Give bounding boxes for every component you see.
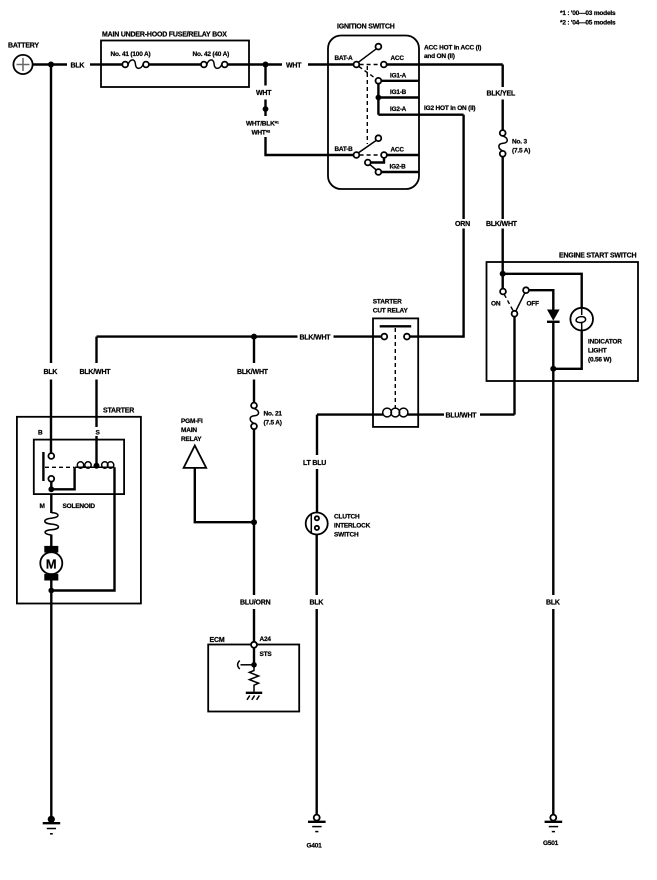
dashed linkage BAT-A to ACC — [360, 64, 381, 66]
svg-text:IG1-A: IG1-A — [390, 72, 407, 79]
indicator light L — [570, 308, 622, 364]
wire ACC output to BLK/YEL vertical — [387, 45, 503, 65]
ignition switch terminal ACC (upper) — [381, 55, 404, 67]
relay coil — [317, 408, 444, 417]
svg-text:IGNITION SWITCH: IGNITION SWITCH — [337, 24, 395, 31]
node splice dot on WHT branch — [263, 106, 269, 112]
fuse No.42 (40 A) — [193, 51, 230, 68]
node junction motor bottom — [48, 588, 54, 594]
svg-text:MAIN: MAIN — [181, 427, 197, 434]
wire M terminal to junction — [50, 482, 52, 490]
main under-hood fuse/relay box — [101, 32, 249, 88]
wire BLK/WHT horizontal starter to relay — [97, 334, 382, 341]
fuse No.21 (7.5 A) — [250, 403, 282, 430]
svg-text:(0.56 W): (0.56 W) — [588, 357, 611, 364]
wire BLK/YEL vertical — [487, 65, 516, 131]
svg-text:WHT: WHT — [286, 62, 302, 69]
node junction IG1-B — [376, 95, 382, 101]
svg-text:B: B — [38, 430, 43, 437]
switch blade common contact — [512, 311, 518, 317]
node junction at battery — [48, 62, 54, 68]
label WHT/BLK*1 WHT*2 — [246, 120, 279, 136]
node junction WHT branch — [263, 62, 269, 68]
ignition switch terminal IG2-A wire exits right — [378, 106, 463, 115]
svg-text:PGM-FI: PGM-FI — [181, 418, 203, 425]
svg-text:G401: G401 — [307, 843, 323, 850]
wire BLU/ORN down to ECM — [240, 522, 271, 642]
motor field coil — [45, 513, 59, 535]
motor M — [40, 535, 62, 591]
node junction BLK/WHT tap — [251, 334, 257, 340]
ignition switch terminal IG2-B — [376, 163, 420, 175]
relay contact bar — [380, 325, 412, 327]
svg-text:LT BLU: LT BLU — [303, 460, 326, 467]
wire ORN vertical IG2 down to relay — [455, 115, 470, 338]
wire A24 into ECM — [253, 648, 255, 665]
svg-text:WHT: WHT — [256, 90, 272, 97]
wire OFF to diode — [529, 290, 553, 309]
svg-text:*1 : '00—03 models: *1 : '00—03 models — [560, 10, 616, 17]
relay contact terminals — [381, 334, 409, 340]
svg-text:SOLENOID: SOLENOID — [63, 503, 96, 510]
wire BLK down to G501 — [546, 369, 560, 815]
svg-text:A24: A24 — [260, 636, 272, 643]
wire between fuses — [149, 63, 201, 65]
wire fuse to PGM-FI junction — [253, 429, 255, 522]
ignition switch terminal BAT-A — [335, 55, 360, 67]
blade common to OFF solid — [516, 293, 525, 311]
wire lamp bottom to junction — [553, 330, 581, 369]
dashed linkage BAT-A to IG1-A — [359, 67, 377, 80]
wire horizontal to BAT-B — [266, 154, 354, 156]
ignition switch terminal IG1-A — [376, 72, 420, 83]
wire fuse42 to junction and WHT label to ignition BAT-A — [228, 62, 354, 69]
ground G501 — [543, 815, 562, 847]
ignition switch box — [328, 24, 419, 190]
svg-text:LIGHT: LIGHT — [588, 348, 607, 355]
diode D — [547, 310, 560, 322]
svg-text:SWITCH: SWITCH — [334, 532, 359, 539]
wire IG1-A down to IG2-A — [377, 84, 379, 115]
terminal A24 STS — [251, 636, 272, 658]
solenoid box — [34, 427, 124, 510]
solenoid pull-in coil — [75, 462, 115, 468]
chassis ground battery side — [43, 816, 61, 834]
engine start switch OFF contact — [523, 287, 539, 307]
svg-text:BATTERY: BATTERY — [8, 43, 39, 50]
fuse No.3 (7.5 A) — [499, 130, 530, 157]
fuse No.41 (100 A) — [102, 51, 150, 68]
ground inside ECM — [246, 693, 262, 700]
wire starter to chassis ground — [50, 591, 52, 819]
dashed linkage vertical — [366, 66, 368, 144]
svg-text:BLU/ORN: BLU/ORN — [240, 600, 271, 607]
dashed linkage BAT-B to ACC — [360, 154, 381, 156]
switch arm BAT-A — [359, 44, 382, 63]
wire BLK/WHT vertical starter S branch — [80, 337, 112, 463]
dashed relay linkage — [394, 328, 396, 409]
svg-text:IG2-B: IG2-B — [390, 163, 407, 170]
svg-text:*2 : '04—05 models: *2 : '04—05 models — [560, 20, 616, 27]
wire M down to motor coil — [50, 494, 52, 513]
wire BLU/WHT to engine start switch — [446, 412, 515, 419]
wire diode to junction — [552, 323, 554, 369]
svg-text:M: M — [40, 503, 45, 510]
note *1 *2 models — [560, 10, 616, 27]
svg-text:BLU/WHT: BLU/WHT — [446, 412, 478, 419]
engine start switch box — [487, 252, 639, 381]
node junction below diode — [550, 366, 556, 372]
node junction S terminal — [94, 463, 100, 469]
svg-text:BLK/WHT: BLK/WHT — [237, 369, 269, 376]
svg-text:ACC HOT in ACC (I): ACC HOT in ACC (I) — [424, 45, 481, 52]
svg-text:M: M — [46, 556, 57, 571]
svg-text:BLK: BLK — [71, 62, 85, 69]
ignition switch terminal IG1-B — [378, 89, 419, 97]
ignition run contact circle — [365, 160, 371, 166]
node junction PGM-FI tap — [251, 519, 257, 525]
wire battery to fuse box with BLK label — [33, 62, 102, 69]
switch arm BAT-B — [359, 135, 382, 152]
ground G401 — [307, 815, 326, 850]
svg-text:No. 42 (40 A): No. 42 (40 A) — [193, 51, 230, 58]
svg-text:BLK/YEL: BLK/YEL — [487, 91, 516, 98]
svg-text:BAT-B: BAT-B — [335, 146, 354, 153]
node junction inside ECM — [251, 662, 257, 668]
clutch interlock switch — [306, 513, 371, 539]
svg-text:G501: G501 — [543, 840, 559, 847]
svg-text:BLK: BLK — [310, 600, 324, 607]
battery BT — [8, 43, 39, 75]
svg-text:STS: STS — [260, 651, 273, 658]
svg-text:ACC: ACC — [391, 147, 405, 154]
svg-text:No. 3: No. 3 — [512, 139, 527, 146]
ignition switch terminal BAT-B — [335, 146, 360, 158]
svg-text:No. 21: No. 21 — [264, 411, 283, 418]
wire coil down right side — [51, 467, 114, 590]
svg-text:BAT-A: BAT-A — [335, 55, 354, 62]
svg-text:IG1-B: IG1-B — [390, 89, 407, 96]
svg-text:STARTER: STARTER — [103, 407, 134, 414]
wire junction to lamp branch — [503, 274, 582, 308]
dashed plunger linkage — [45, 466, 74, 468]
svg-text:MAIN UNDER-HOOD FUSE/RELAY BOX: MAIN UNDER-HOOD FUSE/RELAY BOX — [102, 32, 227, 39]
starter cut relay box — [373, 299, 418, 427]
svg-text:CLUTCH: CLUTCH — [334, 514, 360, 521]
solenoid B terminal — [48, 453, 54, 459]
wire BLK/WHT vertical to engine start switch — [486, 157, 518, 291]
wire BLK down to G401 — [310, 535, 324, 815]
engine start switch ON contact — [491, 289, 506, 308]
ECM box — [208, 637, 299, 712]
svg-text:BLK/WHT: BLK/WHT — [80, 369, 112, 376]
svg-text:and ON (II): and ON (II) — [424, 53, 455, 60]
svg-text:STARTER: STARTER — [373, 299, 402, 306]
wire ACC lower hook to run contact — [371, 158, 384, 163]
svg-text:IG2-A: IG2-A — [390, 106, 407, 113]
wire BLK/WHT vertical center branch — [237, 337, 269, 403]
blade run contact to IG2-B — [370, 165, 376, 170]
svg-text:No. 41 (100 A): No. 41 (100 A) — [111, 51, 151, 58]
svg-text:INTERLOCK: INTERLOCK — [334, 523, 371, 530]
node junction solenoid — [48, 486, 54, 492]
svg-text:ACC: ACC — [391, 55, 405, 62]
svg-text:BLK/WHT: BLK/WHT — [300, 334, 332, 341]
svg-text:ENGINE START SWITCH: ENGINE START SWITCH — [559, 252, 636, 259]
solenoid M terminal — [48, 476, 54, 482]
PGM-FI main relay arrow — [181, 418, 254, 522]
svg-text:(7.5 A): (7.5 A) — [512, 148, 530, 155]
svg-text:IG2 HOT in ON (II): IG2 HOT in ON (II) — [424, 105, 475, 112]
svg-text:WHT/BLK*¹: WHT/BLK*¹ — [246, 120, 279, 127]
svg-text:ECM: ECM — [210, 637, 225, 644]
svg-text:BLK/WHT: BLK/WHT — [486, 221, 518, 228]
svg-text:(7.5 A): (7.5 A) — [264, 420, 282, 427]
svg-text:BLK: BLK — [546, 600, 560, 607]
wire LT BLU vertical to clutch interlock switch — [303, 415, 326, 513]
svg-text:INDICATOR: INDICATOR — [588, 339, 622, 346]
svg-text:BLK: BLK — [44, 369, 58, 376]
svg-text:ORN: ORN — [455, 221, 470, 228]
solenoid contact plate — [42, 452, 44, 481]
wire relay right contact to ORN — [410, 335, 464, 337]
wire junction up to coil — [51, 467, 74, 489]
svg-text:RELAY: RELAY — [181, 436, 202, 443]
svg-text:ON: ON — [491, 301, 501, 308]
wire WHT vertical branch down — [256, 65, 272, 157]
dashed blade ON to common — [504, 294, 513, 311]
wire stub to other circuit — [238, 661, 254, 669]
starter box — [17, 407, 141, 603]
wire blade common down to BLU/WHT — [513, 317, 515, 415]
ignition switch terminal ACC (lower) — [381, 147, 419, 158]
svg-text:OFF: OFF — [527, 301, 540, 308]
wire BLK vertical battery down to starter B — [44, 65, 58, 453]
svg-text:CUT RELAY: CUT RELAY — [373, 308, 409, 315]
resistor R inside ECM — [249, 665, 258, 692]
svg-text:WHT*²: WHT*² — [252, 129, 272, 136]
node junction in engine start switch — [500, 271, 506, 277]
